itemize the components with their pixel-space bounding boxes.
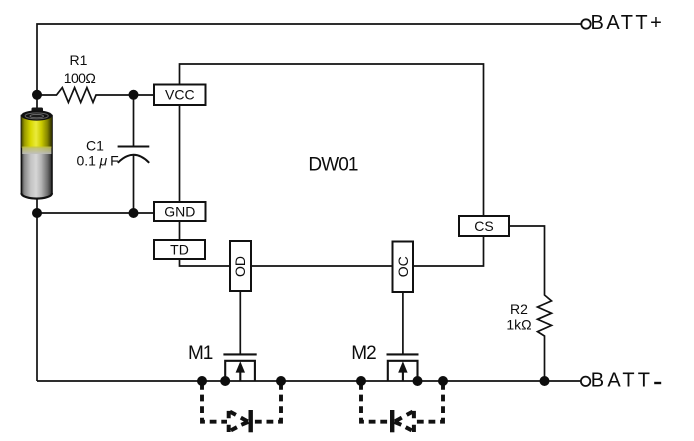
svg-text:M2: M2 — [351, 343, 376, 364]
svg-text:VCC: VCC — [165, 87, 195, 103]
svg-text:BATT: BATT — [591, 370, 653, 392]
svg-text:OD: OD — [232, 256, 248, 277]
svg-text:1kΩ: 1kΩ — [506, 317, 531, 333]
svg-text:DW01: DW01 — [308, 155, 358, 176]
svg-text:TD: TD — [170, 242, 189, 258]
svg-text:GND: GND — [164, 204, 195, 220]
svg-text:BATT+: BATT+ — [591, 12, 665, 34]
svg-text:0.1μF: 0.1μF — [77, 152, 119, 168]
svg-text:R2: R2 — [510, 301, 528, 317]
svg-text:R1: R1 — [70, 52, 88, 68]
svg-text:CS: CS — [474, 218, 493, 234]
svg-text:C1: C1 — [86, 138, 104, 154]
svg-text:100Ω: 100Ω — [64, 70, 96, 86]
svg-text:OC: OC — [395, 256, 411, 277]
svg-text:M1: M1 — [188, 343, 213, 364]
